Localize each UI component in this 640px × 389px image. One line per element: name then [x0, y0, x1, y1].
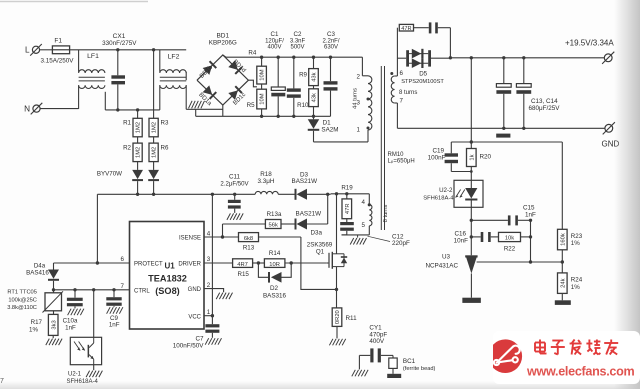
svg-text:3.15A/250V: 3.15A/250V [41, 57, 75, 64]
svg-text:R13: R13 [243, 244, 255, 251]
svg-text:D4a: D4a [34, 262, 46, 269]
svg-text:ISENSE: ISENSE [179, 236, 201, 242]
svg-text:330nF/275V: 330nF/275V [102, 40, 137, 47]
svg-text:0R20: 0R20 [335, 310, 341, 324]
svg-text:R18: R18 [260, 171, 272, 178]
svg-text:10M: 10M [260, 93, 266, 104]
svg-text:D2: D2 [270, 285, 279, 292]
svg-text:4R7: 4R7 [237, 262, 248, 268]
svg-text:R5: R5 [247, 102, 255, 109]
svg-text:R3: R3 [161, 120, 169, 127]
svg-text:STPS20M100ST: STPS20M100ST [401, 79, 444, 85]
svg-text:C13, C14: C13, C14 [531, 98, 558, 105]
svg-text:56k: 56k [269, 222, 278, 228]
svg-text:400V: 400V [267, 44, 281, 50]
svg-text:U1: U1 [165, 261, 176, 270]
svg-text:43k: 43k [312, 72, 318, 81]
svg-text:R9: R9 [299, 72, 307, 79]
svg-text:BD1: BD1 [216, 33, 229, 40]
svg-text:2.2μF/50V: 2.2μF/50V [220, 181, 249, 188]
svg-text:100nF: 100nF [428, 155, 446, 162]
svg-text:47R: 47R [401, 26, 411, 32]
svg-text:160k: 160k [560, 233, 566, 246]
svg-text:D1: D1 [323, 120, 332, 127]
svg-text:3: 3 [207, 256, 211, 263]
svg-text:C2: C2 [294, 31, 302, 38]
svg-text:BYV70W: BYV70W [97, 170, 122, 177]
svg-text:U3: U3 [442, 253, 451, 260]
svg-text:R17: R17 [31, 319, 43, 326]
svg-text:10R: 10R [269, 262, 280, 268]
svg-text:D5: D5 [419, 71, 427, 78]
svg-text:24k: 24k [560, 278, 566, 287]
svg-text:400V: 400V [369, 338, 385, 345]
svg-text:1%: 1% [29, 326, 38, 333]
svg-text:6k8: 6k8 [244, 236, 253, 242]
svg-text:(SO8): (SO8) [155, 286, 180, 296]
svg-text:3.3nF: 3.3nF [290, 38, 306, 44]
svg-text:1M2: 1M2 [136, 147, 142, 158]
svg-text:220pF: 220pF [392, 240, 410, 247]
svg-text:SFH618A-4: SFH618A-4 [423, 196, 454, 202]
svg-text:120μF/: 120μF/ [265, 38, 284, 44]
svg-text:6: 6 [121, 256, 125, 263]
svg-text:R23: R23 [571, 233, 583, 240]
svg-text:7: 7 [121, 283, 125, 290]
svg-text:C19: C19 [432, 148, 444, 155]
svg-text:1M2: 1M2 [136, 122, 142, 133]
svg-text:3.8k@110C: 3.8k@110C [7, 305, 37, 311]
svg-text:R13a: R13a [267, 211, 282, 218]
svg-text:C11: C11 [229, 174, 241, 181]
svg-text:R20: R20 [480, 154, 492, 161]
svg-text:BAS21W: BAS21W [296, 210, 322, 217]
svg-text:2.2nF/: 2.2nF/ [322, 38, 339, 44]
svg-text:GND: GND [188, 287, 202, 293]
svg-text:D3a: D3a [311, 229, 323, 236]
svg-text:KBP206G: KBP206G [209, 40, 237, 47]
svg-text:SA2M: SA2M [321, 127, 338, 134]
svg-text:R6: R6 [161, 144, 169, 151]
svg-text:1: 1 [357, 126, 361, 133]
svg-text:C3: C3 [327, 31, 335, 38]
svg-text:L: L [25, 46, 30, 55]
svg-text:CTRL: CTRL [134, 288, 150, 294]
svg-text:680μF/25V: 680μF/25V [529, 105, 561, 112]
svg-text:TEA1832: TEA1832 [148, 274, 187, 284]
svg-text:1k: 1k [469, 154, 475, 160]
svg-text:47R: 47R [345, 203, 351, 214]
svg-text:CX1: CX1 [113, 33, 126, 40]
svg-text:1nF: 1nF [525, 212, 536, 219]
svg-text:BAS21W: BAS21W [292, 178, 318, 185]
svg-text:U2-2: U2-2 [439, 187, 453, 194]
svg-text:4: 4 [207, 230, 211, 237]
svg-text:R19: R19 [341, 184, 353, 191]
svg-text:N: N [24, 105, 30, 114]
svg-text:100k@25C: 100k@25C [8, 297, 37, 303]
svg-text:43k: 43k [312, 93, 318, 102]
svg-text:DRIVER: DRIVER [178, 262, 201, 268]
svg-text:1nF: 1nF [109, 322, 120, 329]
svg-text:www.elecfans.com: www.elecfans.com [526, 365, 635, 379]
svg-text:R24: R24 [571, 277, 583, 284]
svg-text:R4: R4 [248, 49, 256, 56]
svg-text:(ferrite bead): (ferrite bead) [403, 366, 436, 372]
svg-text:10M: 10M [260, 69, 266, 80]
svg-text:Lₚ=650μH: Lₚ=650μH [388, 159, 415, 165]
svg-text:7: 7 [400, 97, 404, 104]
svg-text:BAS416: BAS416 [26, 270, 49, 277]
svg-text:R10: R10 [297, 102, 309, 109]
svg-text:C1: C1 [271, 31, 279, 38]
svg-text:BC1: BC1 [403, 358, 416, 365]
svg-text:5: 5 [362, 222, 366, 229]
svg-text:C16: C16 [454, 230, 466, 237]
svg-text:R2: R2 [123, 144, 131, 151]
svg-text:10k: 10k [505, 235, 514, 241]
svg-text:VCC: VCC [188, 314, 201, 320]
svg-text:R15: R15 [238, 271, 250, 278]
svg-text:2SK3569: 2SK3569 [307, 242, 333, 249]
svg-text:6: 6 [400, 70, 404, 77]
svg-text:8 turns: 8 turns [383, 205, 389, 223]
svg-text:3.3μH: 3.3μH [258, 178, 275, 185]
svg-text:RM10: RM10 [388, 152, 405, 158]
svg-text:U2-1: U2-1 [68, 371, 82, 377]
svg-text:44 turns: 44 turns [353, 88, 359, 109]
svg-text:LF1: LF1 [87, 53, 99, 60]
svg-text:RT1 TTC05: RT1 TTC05 [7, 290, 37, 296]
svg-text:10nF: 10nF [454, 237, 469, 244]
svg-text:630V: 630V [324, 44, 338, 50]
svg-text:Q1: Q1 [316, 249, 325, 256]
svg-text:1nF: 1nF [65, 324, 76, 331]
svg-text:NCP431AC: NCP431AC [425, 262, 458, 269]
svg-text:1%: 1% [571, 284, 580, 291]
svg-text:+19.5V/3.34A: +19.5V/3.34A [565, 38, 614, 47]
svg-text:R14: R14 [269, 250, 281, 257]
svg-text:500V: 500V [290, 44, 304, 50]
svg-text:1M2: 1M2 [152, 122, 158, 133]
svg-text:BAS316: BAS316 [263, 292, 287, 299]
svg-text:F1: F1 [54, 38, 62, 45]
svg-text:4: 4 [362, 199, 366, 206]
svg-text:3k3: 3k3 [51, 320, 57, 329]
svg-text:100nF/50V: 100nF/50V [173, 342, 205, 349]
svg-text:PROTECT: PROTECT [134, 262, 163, 268]
svg-text:1M2: 1M2 [152, 147, 158, 158]
svg-text:1%: 1% [571, 240, 580, 247]
svg-text:2: 2 [357, 73, 361, 80]
svg-text:R1: R1 [123, 120, 131, 127]
svg-text:R11: R11 [346, 315, 358, 322]
svg-text:R22: R22 [504, 245, 516, 252]
svg-text:8 turns: 8 turns [399, 90, 417, 96]
svg-text:LF2: LF2 [168, 54, 180, 61]
